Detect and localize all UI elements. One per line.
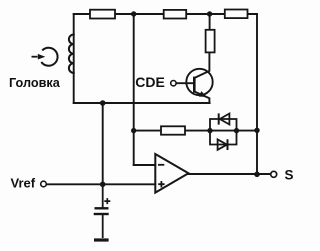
wire vertical from emitter rail to Vref rail	[102, 103, 104, 184]
resistor R3	[225, 10, 248, 19]
wire inverting input to op-amp	[134, 164, 156, 166]
diode VD1 (top, pointing left)	[218, 113, 220, 124]
node dot Vref junction	[100, 182, 106, 188]
head symbol (circle with gap and arrow)	[32, 48, 58, 66]
svg-text:Vref: Vref	[11, 176, 36, 191]
diode pair branch	[210, 119, 237, 145]
node dot diode left	[207, 128, 212, 133]
resistor R2	[164, 10, 187, 19]
terminal S	[271, 171, 277, 177]
resistor R5 vertical	[206, 30, 215, 53]
wire bottom emitter rail	[74, 102, 210, 104]
resistor R1	[90, 10, 115, 19]
capacitor plus label	[104, 198, 110, 204]
transistor Q1	[176, 52, 213, 103]
node dot output	[254, 172, 260, 178]
node dot top-right	[207, 11, 212, 16]
wire top rail to R5	[209, 14, 211, 30]
node dot feedback right	[254, 128, 259, 133]
diode VD2 (bottom, pointing right)	[218, 139, 227, 149]
node dot diode right	[234, 128, 239, 133]
op-amp minus sign	[158, 164, 164, 166]
wire mid vertical (inverting input net)	[133, 14, 135, 165]
op-amp U1	[155, 154, 188, 193]
wire left vertical (head branch)	[73, 14, 75, 103]
wire feedback row	[134, 130, 257, 132]
terminal CDE	[171, 81, 176, 86]
transistor emitter arrow	[199, 91, 207, 97]
svg-text:CDE: CDE	[135, 74, 165, 90]
terminal Vref	[41, 181, 47, 187]
ground	[94, 238, 109, 241]
node dot emitter rail	[100, 100, 106, 106]
capacitor C1 polarized	[102, 184, 104, 207]
node dot feedback left	[131, 128, 136, 133]
wire op-amp output	[189, 173, 271, 175]
node dot top-left	[131, 11, 136, 16]
wire right vertical rail	[256, 14, 258, 174]
wire top rail	[74, 13, 257, 15]
wire Vref horizontal	[46, 183, 155, 185]
svg-text:Головка: Головка	[9, 76, 61, 90]
resistor R4 feedback	[161, 126, 185, 134]
op-amp plus sign	[158, 181, 164, 187]
svg-text:S: S	[285, 168, 294, 183]
inductor L1 (head coil)	[69, 35, 74, 73]
